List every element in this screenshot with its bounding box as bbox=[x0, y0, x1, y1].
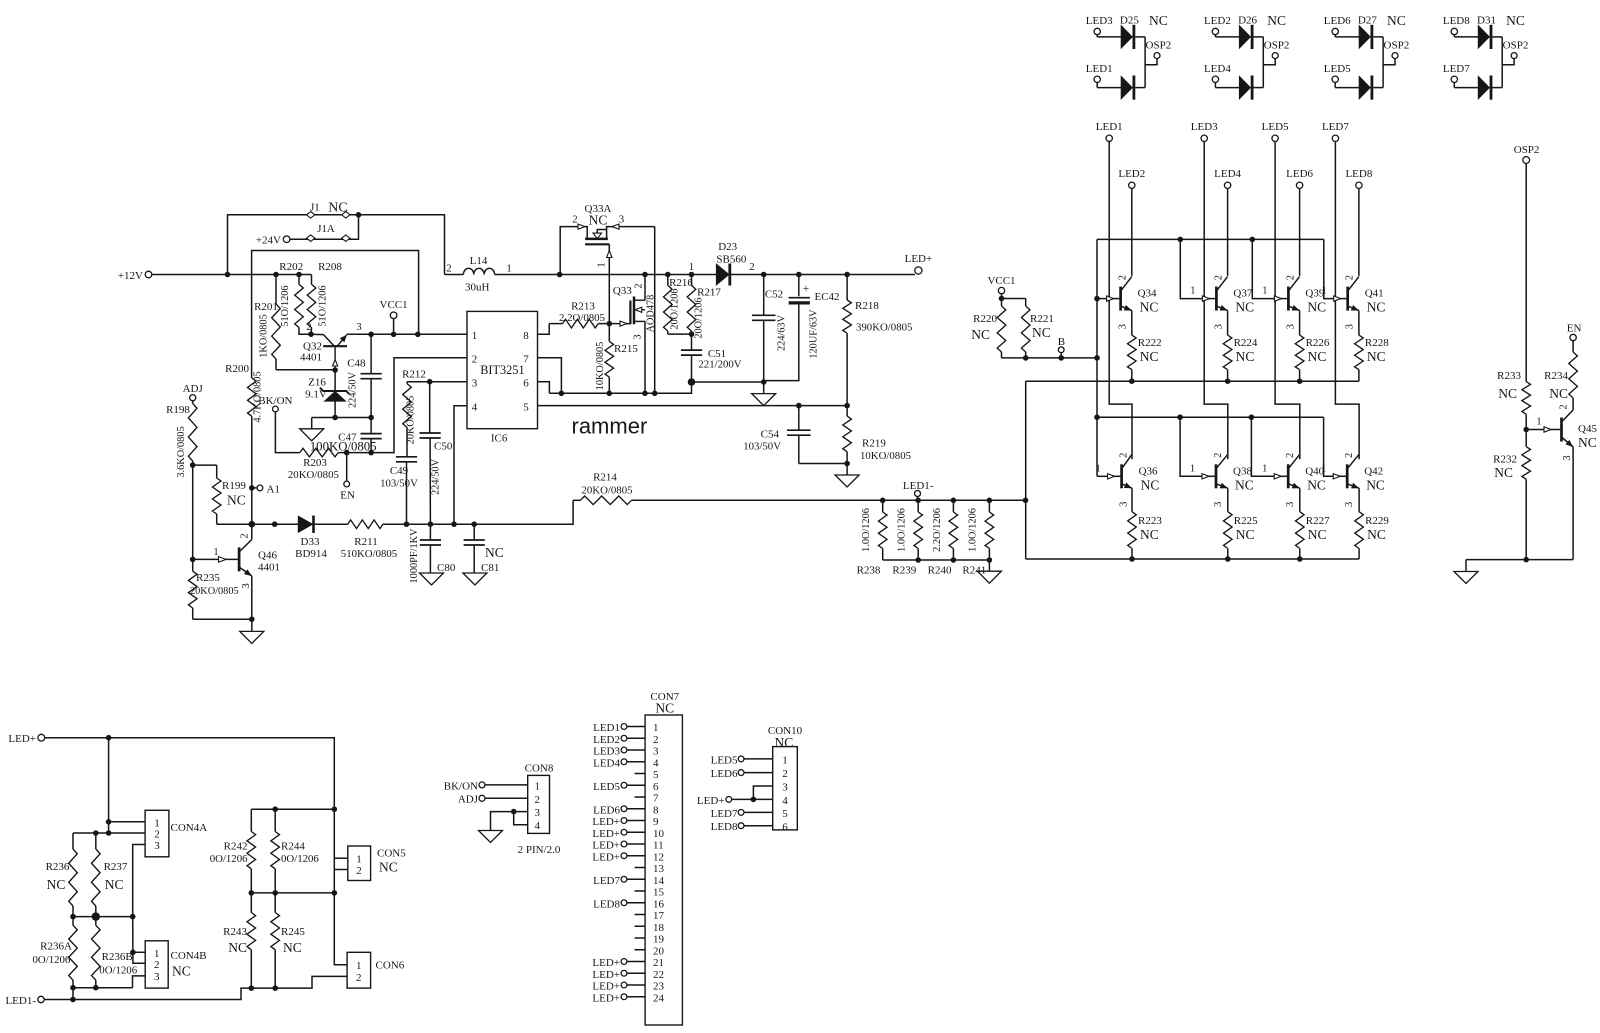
resistor R244 bbox=[271, 809, 319, 893]
node R219 bottom junction bbox=[844, 461, 850, 467]
svg-text:3: 3 bbox=[653, 746, 659, 758]
resistor R225 bbox=[1224, 488, 1259, 559]
svg-text:NC: NC bbox=[1578, 435, 1597, 450]
resistor R221 bbox=[1002, 299, 1054, 358]
svg-text:ADJ: ADJ bbox=[458, 794, 479, 806]
svg-text:R242: R242 bbox=[224, 841, 248, 853]
resistor R198 bbox=[166, 401, 197, 478]
node junction on +12V rail bbox=[225, 272, 302, 278]
svg-text:R222: R222 bbox=[1138, 337, 1162, 349]
label NC group 1 bbox=[1149, 13, 1168, 28]
svg-text:Z16: Z16 bbox=[308, 377, 326, 389]
svg-text:1: 1 bbox=[1190, 286, 1195, 297]
svg-text:Q34: Q34 bbox=[1138, 288, 1157, 300]
diode D23 bbox=[689, 241, 915, 286]
wire OSP2 vertical bbox=[1525, 163, 1527, 381]
svg-text:LED2: LED2 bbox=[1118, 168, 1145, 180]
svg-text:3: 3 bbox=[1562, 455, 1573, 460]
svg-text:R224: R224 bbox=[1234, 337, 1258, 349]
svg-text:3: 3 bbox=[1118, 324, 1129, 329]
node dots on lower base bus bbox=[1177, 414, 1254, 420]
svg-text:2: 2 bbox=[306, 322, 311, 333]
terminal LED3 top group bbox=[1086, 15, 1113, 35]
svg-text:2: 2 bbox=[154, 829, 160, 841]
wire CON10 pin3 jog bbox=[751, 786, 773, 802]
svg-text:NC: NC bbox=[485, 545, 504, 560]
svg-text:NC: NC bbox=[1032, 325, 1051, 340]
svg-text:OSP2: OSP2 bbox=[1146, 39, 1172, 51]
svg-text:LED1: LED1 bbox=[1096, 121, 1123, 133]
svg-text:1.0O/1206: 1.0O/1206 bbox=[861, 508, 872, 552]
svg-text:R236A: R236A bbox=[40, 941, 72, 953]
svg-text:NC: NC bbox=[1235, 477, 1254, 492]
svg-text:1: 1 bbox=[213, 547, 218, 558]
svg-text:NC: NC bbox=[283, 940, 302, 955]
jumper J1 bbox=[307, 202, 351, 219]
resistor R214 bbox=[573, 472, 1025, 505]
svg-text:20: 20 bbox=[653, 945, 665, 957]
wire upper emitter rail bbox=[1026, 380, 1359, 382]
wire J1 net top bbox=[228, 215, 445, 275]
diode D31 lower bbox=[1454, 76, 1502, 100]
wire array left return vertical bbox=[1025, 381, 1027, 559]
svg-text:R200: R200 bbox=[225, 363, 249, 375]
transistor Q46 bbox=[193, 524, 280, 619]
wire CON5 CON6 vertical bbox=[334, 809, 347, 965]
svg-text:LED+: LED+ bbox=[592, 816, 620, 828]
node dots on boost ground rail bbox=[559, 391, 658, 397]
svg-text:NC: NC bbox=[1236, 349, 1255, 364]
svg-text:20KO/0805: 20KO/0805 bbox=[406, 396, 417, 445]
node Q32 base to zener junction bbox=[332, 367, 338, 373]
svg-text:1: 1 bbox=[1095, 463, 1100, 474]
wire B net line bbox=[1002, 357, 1098, 359]
terminal LED1- bottom bbox=[5, 995, 44, 1007]
svg-text:BIT3251: BIT3251 bbox=[480, 363, 524, 377]
svg-text:LED7: LED7 bbox=[593, 875, 620, 887]
node pin3 line C50 junction bbox=[427, 379, 433, 385]
wire LED7 vertical with jog bbox=[1335, 142, 1359, 460]
terminal ADJ bbox=[183, 383, 204, 401]
svg-text:30uH: 30uH bbox=[465, 282, 490, 294]
svg-text:ADJ: ADJ bbox=[183, 383, 204, 395]
svg-text:18: 18 bbox=[653, 922, 665, 934]
svg-text:0O/1206: 0O/1206 bbox=[99, 965, 137, 977]
svg-text:6: 6 bbox=[782, 821, 788, 833]
node main junction R200 bottom bbox=[249, 521, 256, 528]
terminal OSP2 right bbox=[1514, 144, 1540, 163]
svg-text:R240: R240 bbox=[928, 565, 952, 577]
resistor R243 bbox=[223, 893, 255, 988]
svg-text:LED6: LED6 bbox=[1286, 168, 1313, 180]
node Q45 base junction bbox=[1523, 427, 1529, 433]
terminal LED5 con10 bbox=[711, 754, 773, 766]
resistor R199 bbox=[193, 465, 247, 524]
svg-text:R244: R244 bbox=[281, 841, 305, 853]
node dots on pin5 line bbox=[796, 403, 850, 409]
svg-text:LED7: LED7 bbox=[711, 808, 738, 820]
wire Q41 base feed bbox=[1324, 239, 1335, 298]
svg-text:2: 2 bbox=[1118, 275, 1129, 280]
svg-text:6: 6 bbox=[523, 378, 529, 390]
svg-text:D26: D26 bbox=[1238, 15, 1257, 27]
svg-text:EN: EN bbox=[340, 490, 355, 502]
node dots at CON4A pins bbox=[93, 819, 111, 836]
resistor R203 bbox=[288, 448, 347, 481]
resistor R211 bbox=[341, 520, 407, 560]
wire group 2 cathode vertical bbox=[1262, 37, 1264, 88]
svg-text:3: 3 bbox=[154, 840, 160, 852]
svg-text:2: 2 bbox=[1345, 275, 1356, 280]
svg-text:19: 19 bbox=[653, 934, 665, 946]
svg-text:2: 2 bbox=[1213, 275, 1224, 280]
svg-text:20KO/0805: 20KO/0805 bbox=[288, 469, 339, 481]
svg-text:R243: R243 bbox=[223, 926, 247, 938]
svg-text:3: 3 bbox=[1213, 324, 1224, 329]
transistor Q41 bbox=[1322, 275, 1386, 329]
svg-text:2: 2 bbox=[1559, 404, 1570, 409]
connector CON4B bbox=[133, 917, 207, 989]
svg-text:R223: R223 bbox=[1138, 515, 1162, 527]
resistor R238 bbox=[857, 500, 887, 576]
svg-text:OSP2: OSP2 bbox=[1384, 39, 1410, 51]
wire LED8 vertical bbox=[1358, 189, 1360, 276]
svg-text:15: 15 bbox=[653, 887, 665, 899]
wire Q33A gate down to R213 node bbox=[597, 244, 613, 323]
svg-text:NC: NC bbox=[1308, 349, 1327, 364]
terminal +12V bbox=[118, 270, 152, 282]
svg-text:2: 2 bbox=[356, 865, 362, 877]
wire LED3 vertical with jog bbox=[1204, 142, 1228, 460]
svg-text:CON4B: CON4B bbox=[171, 950, 207, 962]
ground below CON8 bbox=[479, 831, 503, 843]
connector CON4A bbox=[73, 810, 207, 916]
svg-text:LED6: LED6 bbox=[711, 768, 738, 780]
svg-text:NC: NC bbox=[227, 493, 246, 508]
node dots on LED1- line bbox=[880, 498, 1028, 504]
wire IC6 pin7 to gnd rail bbox=[538, 358, 562, 394]
svg-text:LED+: LED+ bbox=[592, 957, 620, 969]
svg-text:1.0O/1206: 1.0O/1206 bbox=[968, 508, 979, 552]
svg-text:4: 4 bbox=[472, 401, 478, 413]
svg-text:2: 2 bbox=[1344, 453, 1355, 458]
wire Q36 base lead from feed bbox=[1097, 475, 1109, 477]
svg-text:NC: NC bbox=[775, 735, 794, 750]
svg-text:NC: NC bbox=[328, 201, 347, 216]
wire IC6 pin3 line bbox=[407, 381, 467, 383]
svg-text:LED5: LED5 bbox=[1324, 63, 1351, 75]
svg-text:LED5: LED5 bbox=[593, 781, 620, 793]
wire IC6 pin6 to gnd rail bbox=[538, 382, 550, 394]
svg-text:LED2: LED2 bbox=[593, 734, 620, 746]
resistor R242 bbox=[210, 809, 256, 893]
svg-text:C81: C81 bbox=[481, 562, 499, 574]
svg-text:CON6: CON6 bbox=[376, 960, 405, 972]
svg-text:20KO/0805: 20KO/0805 bbox=[190, 586, 239, 597]
node C48 bottom junction bbox=[368, 415, 374, 421]
svg-text:120UF/63V: 120UF/63V bbox=[809, 309, 820, 359]
node dots on mid junction line bbox=[70, 912, 135, 920]
svg-text:R236B: R236B bbox=[102, 951, 133, 963]
svg-text:CON8: CON8 bbox=[525, 763, 554, 775]
svg-text:R202: R202 bbox=[279, 261, 303, 273]
svg-text:20KO/0805: 20KO/0805 bbox=[582, 485, 633, 497]
svg-text:SB560: SB560 bbox=[716, 254, 746, 266]
svg-text:2: 2 bbox=[653, 734, 659, 746]
transistor Q39 bbox=[1262, 275, 1326, 329]
resistor R228 bbox=[1355, 311, 1390, 382]
node dots on VCC1 line bbox=[368, 332, 420, 338]
svg-text:NC: NC bbox=[1506, 13, 1525, 28]
svg-text:NC: NC bbox=[1367, 349, 1386, 364]
svg-text:NC: NC bbox=[1140, 300, 1159, 315]
wire R238-R241 bottom bus bbox=[883, 557, 993, 563]
transistor Q32 bbox=[300, 322, 362, 370]
diode D25 upper bbox=[1097, 15, 1145, 50]
terminal LED4 bottom group bbox=[1204, 63, 1231, 83]
svg-text:LED+: LED+ bbox=[697, 795, 725, 807]
terminal LED5 bottom group bbox=[1324, 63, 1351, 83]
svg-text:LED4: LED4 bbox=[593, 757, 620, 769]
resistor R220 bbox=[971, 299, 1006, 358]
svg-text:LED1: LED1 bbox=[1086, 63, 1113, 75]
svg-text:2: 2 bbox=[1285, 275, 1296, 280]
svg-text:OSP2: OSP2 bbox=[1264, 39, 1290, 51]
svg-text:1: 1 bbox=[534, 780, 540, 792]
svg-text:Q36: Q36 bbox=[1139, 465, 1158, 477]
svg-text:R219: R219 bbox=[862, 438, 886, 450]
resistor R234 bbox=[1544, 341, 1577, 405]
terminal LED7 bottom group bbox=[1443, 63, 1470, 83]
diode D33 bbox=[252, 516, 348, 561]
resistor R240 bbox=[928, 500, 958, 576]
svg-text:LED1: LED1 bbox=[593, 722, 620, 734]
wire LED6 vertical bbox=[1299, 189, 1301, 276]
node dots on C80 line bbox=[404, 521, 477, 527]
svg-text:R213: R213 bbox=[571, 301, 595, 313]
svg-text:A1: A1 bbox=[267, 484, 280, 496]
svg-text:R214: R214 bbox=[593, 472, 617, 484]
transistor Q45 bbox=[1526, 404, 1597, 559]
svg-text:R226: R226 bbox=[1306, 337, 1330, 349]
wire Q34 base lead from feed bbox=[1097, 298, 1108, 300]
svg-text:3: 3 bbox=[633, 334, 644, 339]
ground below Q45 line bbox=[1454, 560, 1478, 584]
resistor R236A bbox=[33, 917, 78, 988]
svg-text:1: 1 bbox=[506, 263, 511, 275]
wire C80 line to R214 corner bbox=[407, 500, 574, 524]
svg-text:LED+: LED+ bbox=[592, 981, 620, 993]
svg-text:VCC1: VCC1 bbox=[380, 299, 408, 311]
svg-text:100KO/0805: 100KO/0805 bbox=[310, 440, 377, 454]
svg-text:LED7: LED7 bbox=[1443, 63, 1470, 75]
svg-text:0O/1206: 0O/1206 bbox=[210, 853, 248, 865]
node dots on R243 R245 bottom line bbox=[249, 985, 279, 991]
resistor R233 bbox=[1497, 370, 1530, 430]
svg-text:3: 3 bbox=[472, 378, 478, 390]
resistor R229 bbox=[1355, 488, 1390, 559]
svg-text:LED5: LED5 bbox=[711, 754, 738, 766]
wire LED+ drop to CON4A bbox=[108, 738, 110, 833]
svg-text:2: 2 bbox=[1213, 453, 1224, 458]
wire R199 bottom to D33 line bbox=[217, 523, 252, 525]
svg-text:3: 3 bbox=[1285, 502, 1296, 507]
mosfet Q33 bbox=[609, 275, 656, 394]
svg-text:23: 23 bbox=[653, 981, 665, 993]
svg-text:B: B bbox=[1058, 336, 1065, 348]
resistor R217 bbox=[687, 272, 721, 339]
svg-text:NC: NC bbox=[1498, 386, 1517, 401]
svg-text:17: 17 bbox=[653, 910, 665, 922]
node C47 bottom junction bbox=[368, 450, 374, 456]
node dots on upper base bus bbox=[1178, 237, 1256, 243]
svg-text:NC: NC bbox=[1307, 477, 1326, 492]
inductor L14 bbox=[445, 255, 560, 294]
svg-text:LED8: LED8 bbox=[593, 898, 620, 910]
svg-text:1: 1 bbox=[1536, 417, 1541, 428]
wire CON8 pin4 link bbox=[511, 809, 528, 825]
terminal LED3 array bbox=[1191, 121, 1218, 142]
svg-text:224/63V: 224/63V bbox=[777, 314, 788, 351]
wire R200 top loop bbox=[252, 251, 419, 378]
svg-text:3.6KO/0805: 3.6KO/0805 bbox=[176, 426, 187, 477]
terminal B bbox=[1058, 336, 1065, 358]
svg-text:R234: R234 bbox=[1544, 370, 1568, 382]
terminal LED8 array bbox=[1345, 168, 1372, 189]
svg-text:2: 2 bbox=[1285, 453, 1296, 458]
svg-text:2: 2 bbox=[572, 214, 577, 226]
svg-text:R237: R237 bbox=[104, 861, 128, 873]
wire C51 to C52 ground link bbox=[692, 381, 764, 383]
node dot at CON4B pin1 bbox=[130, 950, 136, 956]
wire boost ground rail bbox=[549, 382, 691, 393]
resistor R241 bbox=[962, 500, 993, 576]
terminal A1 bbox=[249, 484, 280, 496]
svg-text:LED4: LED4 bbox=[1214, 168, 1241, 180]
svg-text:J1A: J1A bbox=[317, 223, 335, 235]
resistor R200 bbox=[225, 363, 263, 524]
svg-text:R232: R232 bbox=[1493, 454, 1517, 466]
terminal LED4 array bbox=[1214, 168, 1241, 189]
svg-text:6: 6 bbox=[653, 781, 659, 793]
svg-text:C52: C52 bbox=[765, 289, 783, 301]
svg-text:LED+: LED+ bbox=[8, 733, 36, 745]
svg-text:R236: R236 bbox=[46, 861, 70, 873]
capacitor EC42 electrolytic bbox=[764, 272, 840, 381]
wire lower base bus bbox=[1097, 416, 1324, 418]
wire Q42 base feed bbox=[1324, 417, 1335, 476]
wire LED2 vertical bbox=[1131, 189, 1133, 276]
resistor R237 bbox=[92, 833, 128, 917]
svg-text:EC42: EC42 bbox=[814, 291, 839, 303]
resistor R245 bbox=[271, 893, 305, 988]
svg-text:R212: R212 bbox=[402, 369, 426, 381]
capacitor C49 bbox=[380, 457, 418, 524]
diode D26 upper bbox=[1215, 15, 1263, 50]
svg-text:1: 1 bbox=[597, 262, 608, 267]
svg-text:8: 8 bbox=[523, 330, 529, 342]
terminal LED1- mid bbox=[903, 480, 934, 500]
svg-text:NC: NC bbox=[1308, 527, 1327, 542]
svg-text:LED7: LED7 bbox=[1322, 121, 1349, 133]
svg-text:NC: NC bbox=[971, 327, 990, 342]
transistor Q42 bbox=[1321, 453, 1385, 507]
wire group 1 cathode vertical bbox=[1144, 37, 1146, 88]
svg-text:51O/1206: 51O/1206 bbox=[317, 285, 328, 326]
node Q46 base junction bbox=[190, 557, 196, 563]
terminal VCC1 right bbox=[987, 275, 1015, 299]
connector CON7 bbox=[592, 691, 682, 1025]
diode D27 lower bbox=[1335, 76, 1383, 100]
svg-text:10KO/0805: 10KO/0805 bbox=[595, 342, 606, 391]
svg-text:0O/1206: 0O/1206 bbox=[281, 853, 319, 865]
wire CON8 pin3 to ground bbox=[491, 812, 528, 831]
svg-text:2: 2 bbox=[446, 263, 451, 275]
node Q33 drain on rail bbox=[642, 272, 648, 278]
svg-text:Q42: Q42 bbox=[1364, 465, 1383, 477]
svg-text:R229: R229 bbox=[1365, 515, 1389, 527]
svg-text:+12V: +12V bbox=[118, 270, 143, 282]
jumper J1A bbox=[290, 212, 361, 241]
svg-text:NC: NC bbox=[1494, 465, 1513, 480]
svg-text:1: 1 bbox=[154, 948, 160, 960]
resistor R232 bbox=[1493, 430, 1530, 560]
svg-text:BK/ON: BK/ON bbox=[258, 395, 292, 407]
diode D31 upper bbox=[1454, 15, 1502, 50]
svg-text:CON4A: CON4A bbox=[171, 822, 208, 834]
svg-text:4: 4 bbox=[534, 820, 540, 832]
svg-text:1: 1 bbox=[356, 960, 362, 972]
wire R198 junction down to Q46 base bbox=[192, 465, 194, 559]
wire lower emitter rail bbox=[1026, 558, 1359, 560]
svg-text:2: 2 bbox=[1119, 453, 1130, 458]
terminal EN mid bbox=[340, 453, 355, 502]
svg-text:LED+: LED+ bbox=[592, 851, 620, 863]
wire BK/ON to R203 bbox=[275, 412, 299, 453]
IC U-IC6 BIT3251 bbox=[467, 311, 538, 444]
svg-text:R211: R211 bbox=[354, 536, 377, 548]
svg-text:224/50V: 224/50V bbox=[431, 458, 442, 495]
svg-text:LED8: LED8 bbox=[711, 821, 738, 833]
svg-text:Q46: Q46 bbox=[258, 550, 277, 562]
svg-text:3: 3 bbox=[619, 214, 624, 226]
resistor R213 bbox=[549, 301, 609, 328]
svg-text:R216: R216 bbox=[669, 277, 693, 289]
svg-text:Q45: Q45 bbox=[1578, 423, 1597, 435]
svg-text:LED6: LED6 bbox=[593, 804, 620, 816]
resistor R201 bbox=[254, 275, 280, 370]
resistor R215 bbox=[595, 324, 638, 394]
wire R235 bottom to Q46 emitter bbox=[193, 616, 255, 622]
svg-text:2: 2 bbox=[782, 768, 788, 780]
svg-text:+: + bbox=[803, 283, 810, 295]
svg-text:D23: D23 bbox=[718, 241, 737, 253]
svg-text:NC: NC bbox=[1387, 13, 1406, 28]
svg-text:+24V: +24V bbox=[256, 235, 281, 247]
svg-text:R199: R199 bbox=[222, 480, 246, 492]
svg-text:9.1V: 9.1V bbox=[305, 389, 327, 401]
terminal LED7 array bbox=[1322, 121, 1349, 142]
terminal OSP2 group 2 bbox=[1263, 39, 1289, 64]
svg-text:2 PIN/2.0: 2 PIN/2.0 bbox=[518, 844, 561, 856]
terminal +24V bbox=[256, 235, 290, 247]
text rammer watermark bbox=[572, 413, 648, 438]
terminal BK/ON bottom bbox=[444, 780, 528, 792]
capacitor C47 bbox=[310, 418, 382, 454]
svg-text:rammer: rammer bbox=[572, 413, 648, 438]
wire +12V rail bbox=[152, 274, 311, 276]
wire Q32 emitter to IC6 pin1 bbox=[347, 333, 467, 335]
